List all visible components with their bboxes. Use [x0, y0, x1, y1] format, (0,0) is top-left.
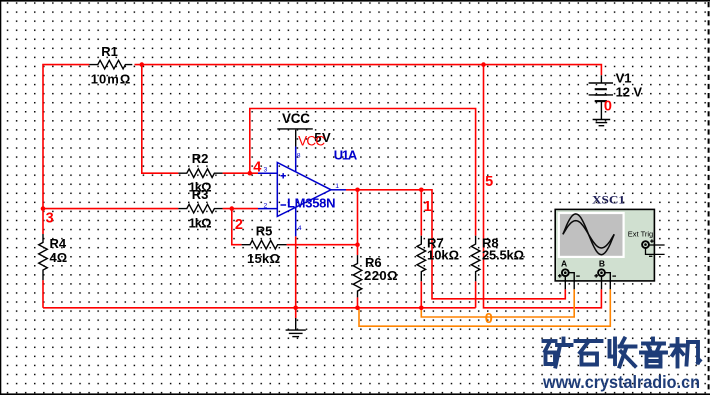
svg-text:220Ω: 220Ω — [364, 268, 398, 283]
svg-text:1: 1 — [335, 183, 339, 190]
svg-text:3: 3 — [46, 211, 54, 227]
svg-text:www.crystalradio.cn: www.crystalradio.cn — [542, 372, 700, 392]
svg-text:0: 0 — [604, 99, 612, 115]
svg-text:U1A: U1A — [334, 147, 358, 162]
svg-text:1kΩ: 1kΩ — [189, 216, 212, 231]
svg-text:0: 0 — [485, 311, 493, 327]
svg-text:R2: R2 — [192, 151, 209, 166]
svg-text:R4: R4 — [50, 236, 67, 251]
svg-text:VCC: VCC — [298, 133, 325, 148]
svg-text:4: 4 — [253, 159, 261, 175]
svg-text:10kΩ: 10kΩ — [427, 248, 459, 263]
svg-text:R1: R1 — [101, 44, 118, 59]
svg-text:B: B — [599, 258, 605, 268]
svg-text:Ext Trig: Ext Trig — [628, 229, 653, 238]
svg-text:4: 4 — [298, 225, 302, 232]
svg-text:15kΩ: 15kΩ — [247, 251, 280, 266]
svg-text:3: 3 — [264, 167, 268, 174]
svg-text:VCC: VCC — [282, 111, 310, 126]
svg-text:2: 2 — [235, 217, 243, 233]
svg-text:8: 8 — [297, 152, 301, 159]
svg-text:V1: V1 — [616, 71, 632, 86]
svg-text:25.5kΩ: 25.5kΩ — [482, 248, 524, 263]
svg-text:4Ω: 4Ω — [50, 250, 68, 265]
svg-text:12 V: 12 V — [616, 85, 643, 100]
svg-text:5: 5 — [485, 174, 493, 190]
svg-text:10mΩ: 10mΩ — [91, 72, 131, 87]
svg-text:R5: R5 — [256, 224, 273, 239]
svg-text:A: A — [561, 258, 567, 268]
svg-text:2: 2 — [264, 202, 268, 209]
svg-text:XSC1: XSC1 — [592, 193, 625, 207]
svg-text:R3: R3 — [192, 187, 209, 202]
svg-text:LM358N: LM358N — [287, 195, 336, 210]
svg-text:1: 1 — [424, 199, 432, 215]
